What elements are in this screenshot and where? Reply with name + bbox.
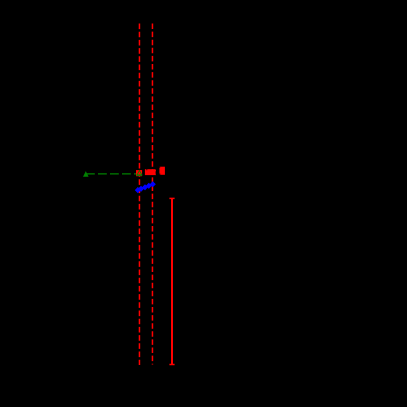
red dashed vertical line left: [138, 24, 140, 366]
green dashed horizontal line: [86, 173, 139, 175]
red filled square marker: [136, 170, 142, 176]
red text blob 2: [159, 167, 165, 175]
blue connecting line: [138, 184, 153, 190]
red text blob 1: [145, 169, 156, 175]
red dashed vertical line right: [151, 24, 153, 365]
red errorbar bottom cap: [169, 364, 174, 366]
red errorbar vertical line: [171, 198, 173, 364]
green filled triangle-up marker left: [83, 171, 89, 177]
green open triangle-up marker over square: [137, 170, 142, 174]
green marker base bar: [136, 174, 142, 176]
red errorbar top cap: [169, 197, 174, 199]
blue diamond markers: [135, 181, 156, 193]
